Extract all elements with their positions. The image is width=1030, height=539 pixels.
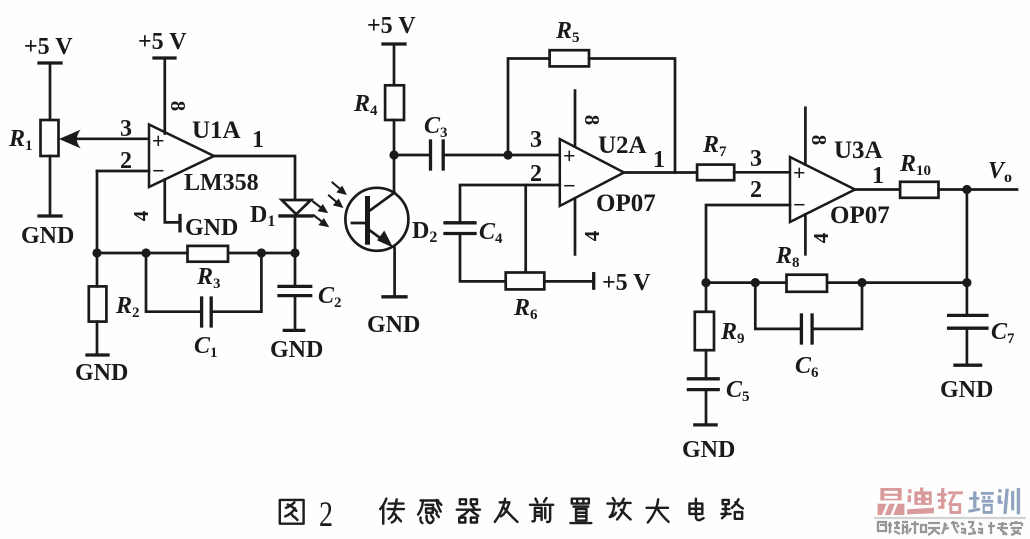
junction at D1 / C2 / bus xyxy=(290,248,299,257)
phototransistor D2 xyxy=(345,188,408,297)
svg-text:R3: R3 xyxy=(196,264,221,292)
resistor R1 (potentiometer) xyxy=(41,120,59,156)
char 设 xyxy=(961,522,976,534)
junction at C1 left / bus xyxy=(141,248,150,257)
junction at C7 / bus xyxy=(962,278,971,287)
caption char: 传 xyxy=(380,499,404,524)
char 射 xyxy=(878,522,892,533)
svg-text:OP07: OP07 xyxy=(596,190,656,217)
junction at C1 right / bus xyxy=(257,248,266,257)
svg-text:1: 1 xyxy=(872,163,884,189)
svg-text:U3A: U3A xyxy=(834,137,883,164)
watermark logo text 培训 (blue) xyxy=(968,488,1020,514)
watermark small text 射频和天线设计专家 xyxy=(878,521,1022,535)
svg-text:R6: R6 xyxy=(513,295,538,323)
caption char: 大 xyxy=(647,499,669,522)
caption char: 前 xyxy=(530,498,553,522)
output wire U3A xyxy=(855,188,900,191)
svg-text:LM358: LM358 xyxy=(184,170,259,196)
watermark char: 迪 xyxy=(907,488,934,515)
resistor R2 xyxy=(87,253,108,355)
pin 4 ground wire U1A xyxy=(165,180,180,231)
pin 8 wire U2A xyxy=(574,91,577,147)
capacitor C3 xyxy=(394,141,560,169)
supply +5V terminal for R1 xyxy=(39,63,61,120)
junction at output node Vo xyxy=(962,185,971,194)
watermark char: 易 xyxy=(878,488,905,515)
svg-text:C4: C4 xyxy=(479,219,503,247)
pin 4 wire U3A xyxy=(804,214,807,254)
svg-text:R9: R9 xyxy=(720,319,745,347)
wire R4 to collector node xyxy=(393,120,396,193)
svg-text:R2: R2 xyxy=(115,293,140,321)
pin 8 power wire U1A xyxy=(154,58,175,134)
svg-text:2: 2 xyxy=(750,177,762,203)
svg-text:C3: C3 xyxy=(424,113,448,141)
caption char: 及 xyxy=(495,499,518,522)
svg-text:+: + xyxy=(793,160,806,185)
caption char: 器 xyxy=(457,499,480,522)
wire R1 to ground xyxy=(49,156,52,216)
svg-text:C2: C2 xyxy=(318,283,342,311)
op-amp U2A xyxy=(560,139,624,206)
svg-text:OP07: OP07 xyxy=(830,202,890,229)
char 线 xyxy=(942,521,959,534)
svg-text:8: 8 xyxy=(807,135,831,146)
capacitor C2 xyxy=(279,253,311,330)
caption char: 感 xyxy=(418,500,441,523)
op-amp U3A xyxy=(790,157,855,222)
op-amp U1A xyxy=(149,125,214,188)
char 频 xyxy=(894,521,908,534)
junction at C6 right / bus xyxy=(857,278,866,287)
svg-text:3: 3 xyxy=(530,127,542,153)
ground terminal under R1 xyxy=(39,214,61,217)
light reception arrows into D2 xyxy=(329,183,346,208)
pin 2 wire U3A to bus xyxy=(706,205,790,283)
resistor R4 xyxy=(385,85,404,120)
watermark divider line xyxy=(874,517,1026,519)
wire output node down to bus xyxy=(966,190,969,283)
svg-text:R7: R7 xyxy=(702,132,727,160)
svg-text:GND: GND xyxy=(185,215,238,241)
svg-text:Vo: Vo xyxy=(988,158,1012,186)
svg-text:+5 V: +5 V xyxy=(138,29,187,55)
light emission arrows of D1 xyxy=(313,202,328,227)
svg-text:D1: D1 xyxy=(250,202,275,230)
svg-text:8: 8 xyxy=(580,115,604,126)
svg-text:GND: GND xyxy=(940,377,993,403)
svg-text:4: 4 xyxy=(580,230,604,241)
svg-text:R4: R4 xyxy=(353,91,378,119)
svg-text:2: 2 xyxy=(319,494,333,534)
svg-text:+5 V: +5 V xyxy=(24,34,73,60)
char 家 xyxy=(1011,521,1022,535)
resistor R6 xyxy=(506,273,594,290)
junction at R9 / U3A pin-2 bus xyxy=(701,278,710,287)
caption char: 置 xyxy=(571,499,592,523)
svg-text:2: 2 xyxy=(530,161,542,187)
pin 4 wire U2A xyxy=(574,198,577,254)
svg-text:4: 4 xyxy=(129,210,153,221)
resistor R7 xyxy=(697,165,790,181)
right feedback bus wire xyxy=(706,281,967,284)
output wire U2A to R7 xyxy=(624,171,697,174)
junction at R2 / pin-2 bus xyxy=(92,248,101,257)
svg-text:R1: R1 xyxy=(8,126,33,154)
LED D1 xyxy=(280,200,312,253)
svg-text:−: − xyxy=(563,173,576,198)
svg-text:8: 8 xyxy=(166,101,190,112)
svg-text:1: 1 xyxy=(252,127,264,153)
svg-text:3: 3 xyxy=(750,146,762,172)
svg-text:R5: R5 xyxy=(555,18,580,46)
svg-text:GND: GND xyxy=(682,437,735,463)
svg-text:U2A: U2A xyxy=(598,132,647,159)
svg-text:−: − xyxy=(793,192,806,217)
svg-text:+5 V: +5 V xyxy=(602,270,651,296)
pin 2 input wire U1A xyxy=(97,171,149,253)
svg-text:+: + xyxy=(563,143,576,168)
svg-text:C7: C7 xyxy=(991,319,1015,347)
pin 8 wire U3A xyxy=(804,108,807,165)
svg-text:D2: D2 xyxy=(412,218,437,246)
svg-text:GND: GND xyxy=(270,337,323,363)
svg-text:GND: GND xyxy=(21,223,74,249)
caption char: 放 xyxy=(607,498,630,519)
resistor R9 xyxy=(695,283,714,379)
char 天 xyxy=(928,523,940,535)
watermark char: 培 xyxy=(968,491,994,513)
caption char: 路 xyxy=(721,499,742,519)
svg-text:GND: GND xyxy=(367,312,420,338)
svg-text:C1: C1 xyxy=(194,333,218,361)
supply +5V terminal for R4 xyxy=(383,44,405,85)
junction at R4 / C3 / D2 collector xyxy=(389,150,398,159)
ground terminal under C5 xyxy=(695,423,716,426)
svg-text:−: − xyxy=(152,158,165,183)
char 专 xyxy=(997,522,1008,535)
feedback resistor R5 loop xyxy=(508,50,675,172)
caption char: 图 xyxy=(280,500,304,524)
svg-text:R10: R10 xyxy=(899,151,931,179)
caption char: 电 xyxy=(690,499,704,520)
capacitor C7 xyxy=(949,283,987,366)
svg-text:GND: GND xyxy=(75,360,128,386)
capacitor C5 xyxy=(688,379,718,425)
watermark char: 训 xyxy=(998,488,1020,514)
svg-text:C5: C5 xyxy=(726,377,750,405)
ground terminal under D2 xyxy=(383,295,406,298)
output wire pin 1 U1A to LED D1 xyxy=(214,156,295,200)
resistor R10 xyxy=(900,182,1017,198)
svg-text:2: 2 xyxy=(120,148,132,174)
svg-text:4: 4 xyxy=(809,232,833,243)
char 和 xyxy=(909,521,926,534)
capacitor C4 branch on pin 2 of U2A xyxy=(445,185,560,281)
left feedback bus wire xyxy=(97,252,295,255)
caption Chinese characters (hand-drawn strokes) xyxy=(280,498,743,524)
svg-text:1: 1 xyxy=(653,147,665,173)
junction at C6 left / bus xyxy=(751,278,760,287)
svg-text:3: 3 xyxy=(120,116,132,142)
resistor R8 xyxy=(787,275,828,292)
junction at R5 tap on U2A pin 3 xyxy=(503,150,512,159)
resistor R3 xyxy=(188,246,229,262)
wire pin2 U2A to R6 xyxy=(524,185,527,273)
capacitor C6 branch xyxy=(755,283,862,343)
svg-text:U1A: U1A xyxy=(192,117,241,144)
watermark char: 拓 xyxy=(937,488,963,514)
svg-text:+: + xyxy=(152,128,165,153)
svg-text:+5 V: +5 V xyxy=(367,13,416,39)
capacitor C1 branch xyxy=(146,253,261,326)
svg-text:C6: C6 xyxy=(795,353,819,381)
wiper arrow of R1 xyxy=(61,131,150,147)
svg-text:R8: R8 xyxy=(775,243,800,271)
char 计 xyxy=(978,522,995,534)
watermark logo text 易迪拓 (pink) xyxy=(878,488,963,515)
